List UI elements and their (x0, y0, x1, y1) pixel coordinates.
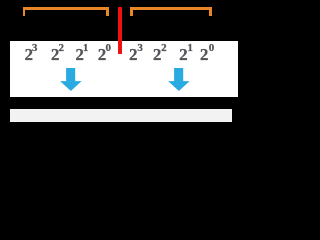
label 2^2 (right group) (153, 46, 162, 63)
white band (10, 41, 238, 97)
bracket left: left tick (23, 7, 26, 16)
label 2^3 (left group) (25, 46, 34, 63)
white streak (lower) (10, 109, 232, 122)
label 2^1 (left group) (75, 46, 84, 63)
bracket left: bar (23, 7, 109, 10)
left blue arrow (60, 68, 82, 92)
bracket right: left tick (130, 7, 133, 16)
bracket right: right tick (209, 7, 212, 16)
bracket left: right tick (106, 7, 109, 16)
label 2^3 (right group) (129, 46, 138, 63)
label 2^1 (right group) (179, 46, 188, 63)
label 2^0 (right group) (200, 46, 209, 63)
label 2^2 (left group) (51, 46, 60, 63)
red divider line (118, 7, 122, 54)
label 2^0 (left group) (98, 46, 107, 63)
bracket right: bar (130, 7, 212, 10)
right blue arrow (168, 68, 190, 92)
